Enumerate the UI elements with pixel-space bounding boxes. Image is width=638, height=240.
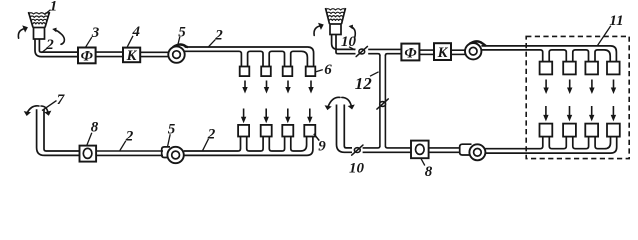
svg-text:12: 12 — [355, 74, 373, 93]
svg-text:2: 2 — [125, 129, 134, 145]
svg-text:5: 5 — [168, 122, 176, 138]
svg-text:3: 3 — [91, 25, 100, 41]
svg-text:Ф: Ф — [404, 45, 416, 61]
svg-text:11: 11 — [609, 13, 623, 29]
svg-text:8: 8 — [425, 164, 433, 180]
svg-text:2: 2 — [45, 37, 54, 53]
svg-text:1: 1 — [50, 0, 58, 15]
svg-text:7: 7 — [57, 92, 65, 108]
svg-text:9: 9 — [318, 139, 326, 155]
svg-text:К: К — [437, 45, 449, 61]
svg-text:10: 10 — [349, 161, 365, 177]
svg-text:Ф: Ф — [81, 49, 93, 65]
svg-text:6: 6 — [324, 62, 332, 78]
svg-text:К: К — [126, 48, 138, 64]
svg-text:2: 2 — [214, 27, 223, 43]
svg-text:10: 10 — [341, 34, 357, 50]
